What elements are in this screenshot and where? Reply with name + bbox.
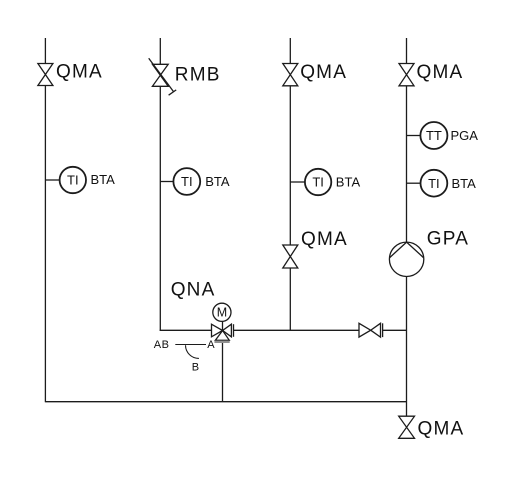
wire L2 lower segment — [159, 86, 161, 331]
valve QMA line1 — [38, 64, 53, 86]
svg-text:TI: TI — [428, 176, 440, 191]
wire L4 lower segment — [406, 276, 408, 416]
instrument circle TI2 — [173, 168, 200, 195]
wire L3 lower segment — [289, 268, 291, 330]
wire horizontal hand valve to L4 — [383, 329, 407, 331]
3-way valve QNA right triangle — [223, 324, 232, 337]
actuator M circle — [213, 303, 231, 321]
valve QMA bottom — [399, 416, 415, 438]
hand valve left triangle — [359, 323, 371, 337]
svg-text:PGA: PGA — [451, 128, 479, 143]
instrument circle TI4 — [421, 170, 448, 197]
instrument stub TI3 — [290, 181, 305, 183]
valve QMA line3 lower — [283, 245, 298, 268]
svg-text:BTA: BTA — [336, 175, 361, 190]
wire L2 horizontal to 3-way valve — [160, 329, 212, 331]
hand valve right triangle — [371, 323, 381, 337]
svg-text:TI: TI — [181, 174, 193, 189]
svg-text:TT: TT — [426, 128, 442, 143]
wire L1 lower segment — [44, 86, 46, 403]
svg-text:QMA: QMA — [301, 229, 348, 250]
svg-text:TI: TI — [67, 173, 79, 188]
wire bottom return line — [45, 401, 406, 403]
valve QMA line3 top — [283, 64, 298, 86]
valve RMB line2 body — [152, 64, 168, 86]
valve RMB tick — [169, 90, 177, 95]
svg-text:TI: TI — [312, 175, 324, 190]
svg-text:GPA: GPA — [427, 229, 469, 250]
svg-text:QMA: QMA — [300, 62, 347, 83]
wire L3 upper segment — [289, 38, 291, 64]
instrument circle TT — [420, 122, 447, 149]
pump GPA circle — [389, 242, 423, 276]
svg-text:QNA: QNA — [171, 279, 216, 300]
instrument stub TI1 — [45, 179, 59, 181]
instrument circle TI3 — [305, 169, 331, 195]
instrument stub TT — [407, 135, 421, 137]
instrument stub TI4 — [407, 182, 421, 184]
3-way valve QNA bottom seat gray — [214, 341, 229, 343]
svg-text:BTA: BTA — [205, 174, 230, 189]
3-way valve QNA left triangle — [212, 324, 223, 337]
pump GPA vane left — [390, 242, 407, 258]
svg-text:QMA: QMA — [418, 419, 465, 440]
svg-text:B: B — [192, 362, 200, 374]
svg-text:AB: AB — [154, 339, 170, 351]
svg-text:RMB: RMB — [175, 65, 221, 86]
wire horizontal 3way to hand valve — [233, 329, 359, 331]
port diagram AB line — [175, 344, 206, 346]
wire L3 middle segment — [289, 86, 291, 245]
3-way valve QNA bottom triangle — [215, 331, 229, 341]
svg-text:M: M — [217, 306, 227, 320]
actuator M stem — [222, 321, 224, 330]
3-way valve QNA right double seat — [233, 324, 235, 337]
wire L4 upper segment — [406, 38, 408, 64]
instrument stub TI2 — [160, 181, 173, 183]
instrument circle TI1 — [60, 167, 86, 193]
hand valve double seat — [382, 323, 384, 337]
svg-text:QMA: QMA — [56, 61, 103, 82]
svg-text:BTA: BTA — [91, 172, 116, 187]
wire L1 upper segment — [44, 38, 46, 64]
valve RMB diagonal stem — [149, 58, 174, 92]
wire L4 middle segment — [406, 86, 408, 242]
valve QMA line4 top — [399, 64, 414, 86]
svg-text:A: A — [207, 339, 215, 351]
svg-text:QMA: QMA — [417, 62, 464, 83]
svg-text:BTA: BTA — [452, 176, 477, 191]
port diagram B arc — [186, 345, 199, 358]
pump GPA vane right — [407, 242, 424, 258]
wire L2 upper segment — [159, 38, 161, 64]
wire 3-way valve B-port down — [222, 342, 224, 401]
